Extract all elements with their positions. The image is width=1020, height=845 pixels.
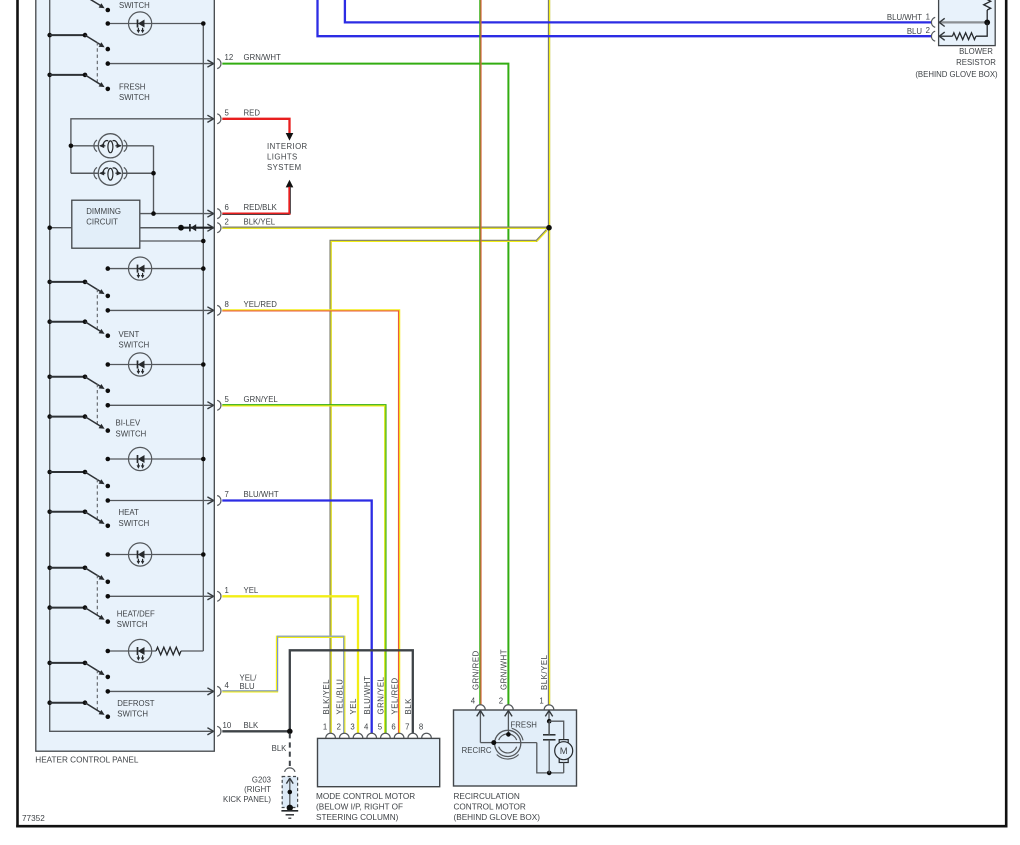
- wire BLK/YEL (junction to mode pin1): [331, 230, 548, 733]
- svg-text:KICK PANEL): KICK PANEL): [223, 795, 271, 804]
- svg-text:SWITCH: SWITCH: [119, 1, 150, 10]
- svg-text:4: 4: [471, 697, 476, 706]
- svg-text:YEL/BLU: YEL/BLU: [336, 679, 345, 715]
- svg-text:RECIRC: RECIRC: [462, 746, 492, 755]
- svg-text:5: 5: [225, 108, 230, 117]
- svg-text:RED/BLK: RED/BLK: [244, 203, 278, 212]
- svg-text:HEAT/DEF: HEAT/DEF: [117, 610, 155, 619]
- switch fresh mechanical link: [96, 42, 98, 82]
- svg-text:4: 4: [364, 723, 369, 732]
- capacitor (motor): [543, 721, 556, 773]
- svg-text:GRN/WHT: GRN/WHT: [244, 53, 281, 62]
- label BLU: [907, 27, 923, 36]
- wire BLU/WHT (pin7 to mode pin4): [222, 501, 371, 734]
- svg-text:RECIRCULATION: RECIRCULATION: [454, 792, 520, 801]
- connector pin 4 (YEL/BLU): [217, 681, 229, 696]
- svg-text:BLK: BLK: [404, 698, 413, 715]
- label vent switch: [119, 330, 150, 350]
- diode (dimming output): [190, 224, 196, 231]
- switch fresh upper: [47, 33, 110, 52]
- svg-text:2: 2: [225, 217, 229, 226]
- wire BLK/YEL vertical (top to recirc pin1): [548, 0, 551, 705]
- wire BLK (pin10 to mode pin7): [222, 650, 412, 733]
- label BLU/WHT: [887, 13, 922, 22]
- svg-text:DEFROST: DEFROST: [117, 699, 154, 708]
- wire recirc pin4 branch: [477, 711, 492, 743]
- svg-text:8: 8: [225, 300, 229, 309]
- svg-text:SWITCH: SWITCH: [119, 93, 150, 102]
- label SWITCH (top): [119, 1, 150, 10]
- ground G203 box: [282, 777, 297, 808]
- label BLOWER RESISTOR: [915, 47, 998, 79]
- svg-text:BLU/WHT: BLU/WHT: [363, 676, 372, 715]
- svg-text:M: M: [560, 746, 568, 757]
- wire BLU (top to blower pin2): [318, 0, 932, 36]
- wire lamp2 row: [71, 171, 156, 176]
- svg-text:(BEHIND GLOVE BOX): (BEHIND GLOVE BOX): [915, 70, 998, 79]
- wire dimming out B: [140, 224, 214, 231]
- resistor (LED dropping): [156, 647, 181, 655]
- illumination lamp 1: [94, 134, 127, 158]
- indicator LED row 4 wire: [106, 457, 206, 462]
- switch defrost lower: [47, 700, 110, 719]
- svg-text:1: 1: [926, 12, 930, 21]
- svg-text:SWITCH: SWITCH: [119, 519, 150, 528]
- wire YEL (pin1 to mode pin3): [222, 596, 358, 733]
- svg-text:DIMMING: DIMMING: [86, 207, 121, 216]
- label heat switch: [119, 508, 150, 528]
- wire RED/BLK (from interior lights to pin6): [222, 180, 293, 215]
- wire blower pin1 internal: [939, 18, 990, 26]
- label MODE CONTROL MOTOR: [316, 792, 415, 822]
- label defrost switch: [117, 699, 154, 719]
- svg-text:7: 7: [405, 723, 409, 732]
- svg-text:5: 5: [225, 395, 230, 404]
- svg-text:BLU/WHT: BLU/WHT: [887, 13, 922, 22]
- svg-text:CONTROL MOTOR: CONTROL MOTOR: [454, 803, 526, 812]
- label FRESH: [511, 720, 537, 729]
- svg-text:BLK: BLK: [244, 721, 260, 730]
- svg-text:G203: G203: [252, 775, 271, 784]
- svg-text:(BELOW I/P, RIGHT OF: (BELOW I/P, RIGHT OF: [316, 803, 403, 812]
- wire rotary wiper: [491, 732, 537, 745]
- connector pin 12 (GRN/WHT): [217, 53, 281, 68]
- connector pin 5 (GRN/YEL): [217, 395, 278, 410]
- wire BLK/YEL (pin2 junction): [222, 227, 549, 230]
- labels recirc motor wire colors: [472, 649, 550, 690]
- wire heat/def output contact: [106, 593, 214, 600]
- svg-text:10: 10: [223, 721, 232, 730]
- svg-text:GRN/YEL: GRN/YEL: [244, 395, 279, 404]
- svg-text:GRN/RED: GRN/RED: [472, 650, 481, 690]
- svg-text:6: 6: [391, 723, 395, 732]
- connector pin 2 (BLK/YEL): [217, 217, 276, 232]
- wire YEL/RED (pin8 to mode pin6): [222, 310, 399, 733]
- wire GRN/YEL (pin5 to mode pin5): [222, 405, 385, 733]
- resistor (blower, horizontal): [939, 22, 987, 40]
- svg-text:SWITCH: SWITCH: [117, 620, 148, 629]
- label heat/def switch: [117, 610, 155, 630]
- svg-text:4: 4: [225, 681, 230, 690]
- junction BLK node: [287, 729, 293, 735]
- switch vent lower: [47, 319, 110, 338]
- switch fresh lower: [47, 73, 110, 92]
- label YEL/BLU (two lines): [240, 674, 258, 691]
- wire BLK dashed to ground: [289, 733, 291, 767]
- junction BLK/YEL node: [546, 225, 552, 231]
- svg-text:GRN/YEL: GRN/YEL: [377, 676, 386, 714]
- mode control motor box: [318, 738, 440, 786]
- svg-text:YEL: YEL: [349, 698, 358, 715]
- svg-text:BLU: BLU: [907, 27, 923, 36]
- svg-text:BLK/YEL: BLK/YEL: [322, 679, 331, 715]
- recirc motor pins 4 2 1: [471, 697, 554, 710]
- wire motor top branch: [549, 721, 564, 739]
- svg-text:SWITCH: SWITCH: [119, 340, 150, 349]
- switch heat/def mechanical link: [96, 575, 98, 615]
- svg-text:SWITCH: SWITCH: [117, 710, 148, 719]
- wire recirc pin2 branch: [505, 711, 512, 734]
- label DIMMING CIRCUIT: [86, 207, 121, 226]
- svg-text:6: 6: [225, 203, 229, 212]
- connector blower pin1: [926, 12, 936, 27]
- wire dimming in D: [47, 225, 71, 230]
- label fresh switch: [119, 83, 150, 103]
- resistor (blower, vertical): [984, 0, 991, 22]
- svg-text:LIGHTS: LIGHTS: [267, 153, 298, 162]
- switch bi-lev lower: [47, 414, 110, 433]
- wire lamp right link: [153, 146, 155, 214]
- svg-text:HEAT: HEAT: [119, 508, 139, 517]
- connector pin 6 (RED/BLK): [217, 203, 277, 218]
- svg-text:BLK/YEL: BLK/YEL: [244, 217, 276, 226]
- wire fresh output contact: [106, 60, 214, 67]
- mode motor pins 1-8: [323, 723, 431, 739]
- indicator LED 4: [129, 447, 152, 470]
- wire vent output contact: [106, 307, 214, 314]
- ground G203 internals: [286, 778, 293, 811]
- connector pin 10 (BLK): [217, 721, 259, 736]
- labels mode motor wire colors: [322, 676, 413, 715]
- connector pin 1 (YEL): [217, 586, 259, 601]
- switch bi-lev mechanical link: [96, 384, 98, 424]
- svg-text:YEL/RED: YEL/RED: [390, 677, 399, 714]
- connector pin 5 (RED): [217, 108, 260, 123]
- svg-text:2: 2: [337, 723, 341, 732]
- label INTERIOR LIGHTS SYSTEM: [267, 142, 308, 172]
- wire right bus: [202, 24, 204, 652]
- wire bi-lev output contact: [106, 402, 214, 409]
- svg-text:1: 1: [323, 723, 327, 732]
- switch (partial, top): [88, 0, 110, 12]
- blower resistor box: [939, 0, 996, 46]
- wire dimming out C: [140, 239, 206, 244]
- indicator LED 1: [129, 12, 152, 35]
- indicator LED 3: [129, 353, 152, 376]
- connector pin 7 (BLU/WHT): [217, 490, 279, 505]
- wire GRN/RED (top to recirc pin4): [479, 0, 482, 705]
- indicator LED 5: [129, 543, 152, 566]
- svg-text:2: 2: [499, 697, 503, 706]
- svg-text:FRESH: FRESH: [119, 83, 145, 92]
- svg-text:12: 12: [225, 53, 234, 62]
- indicator LED row 3 wire: [106, 362, 206, 367]
- label BLK (ground wire): [272, 744, 288, 753]
- svg-text:MODE CONTROL MOTOR: MODE CONTROL MOTOR: [316, 792, 415, 801]
- indicator LED 6: [129, 639, 152, 662]
- switch heat mechanical link: [96, 479, 98, 519]
- svg-text:8: 8: [419, 723, 423, 732]
- switch defrost mechanical link: [96, 670, 98, 710]
- svg-text:7: 7: [225, 490, 229, 499]
- label G203 (RIGHT KICK PANEL): [223, 775, 271, 804]
- indicator LED 2: [129, 257, 152, 280]
- switch vent mechanical link: [96, 289, 98, 329]
- indicator LED row 6 wire: [106, 649, 204, 654]
- svg-text:FRESH: FRESH: [511, 720, 537, 729]
- svg-text:2: 2: [926, 26, 930, 35]
- svg-text:YEL/RED: YEL/RED: [244, 300, 278, 309]
- svg-text:BLK: BLK: [272, 744, 288, 753]
- switch bi-lev upper: [47, 375, 110, 394]
- connector blower pin2: [926, 26, 936, 41]
- svg-text:GRN/WHT: GRN/WHT: [500, 649, 509, 690]
- diagram number 77352: [22, 814, 45, 823]
- wire BLU/WHT (top to blower pin1): [345, 0, 932, 22]
- svg-text:BLU/WHT: BLU/WHT: [244, 490, 279, 499]
- svg-text:BI-LEV: BI-LEV: [116, 419, 141, 428]
- indicator LED row 5 wire: [106, 552, 206, 557]
- svg-text:(BEHIND GLOVE BOX): (BEHIND GLOVE BOX): [454, 813, 541, 822]
- svg-text:77352: 77352: [22, 814, 45, 823]
- svg-text:VENT: VENT: [119, 330, 140, 339]
- switch heat upper: [47, 470, 110, 489]
- switch heat lower: [47, 510, 110, 529]
- svg-text:BLOWER: BLOWER: [959, 47, 993, 56]
- wire rotary to bottom: [537, 743, 564, 776]
- svg-text:SWITCH: SWITCH: [116, 429, 147, 438]
- switch heat/def lower: [47, 605, 110, 624]
- wire lamp loop: [71, 115, 214, 173]
- wire recirc pin1 branch: [545, 711, 552, 734]
- dimming circuit box: [72, 200, 140, 248]
- svg-text:(RIGHT: (RIGHT: [244, 785, 271, 794]
- wire GRN/WHT (pin12 to recirc pin2): [222, 64, 508, 705]
- svg-text:SYSTEM: SYSTEM: [267, 163, 302, 172]
- wire defrost output contact: [106, 688, 214, 695]
- wire YEL/BLU (pin4 to mode pin2): [222, 636, 344, 733]
- ground symbol: [281, 811, 298, 818]
- svg-text:BLK/YEL: BLK/YEL: [540, 654, 549, 690]
- svg-text:RED: RED: [244, 108, 261, 117]
- svg-text:BLU: BLU: [240, 682, 256, 691]
- svg-text:3: 3: [350, 723, 354, 732]
- svg-text:1: 1: [539, 697, 543, 706]
- indicator LED row 1 wire: [106, 21, 206, 26]
- switch vent upper: [47, 280, 110, 299]
- svg-text:1: 1: [225, 586, 229, 595]
- rotary mode switch (recirc/fresh): [495, 728, 523, 759]
- svg-text:INTERIOR: INTERIOR: [267, 142, 308, 151]
- recirculation control motor box: [454, 710, 577, 786]
- motor M (recirculation): [555, 740, 573, 773]
- wire lamp1 row: [69, 144, 154, 149]
- wire left bus: [50, 0, 214, 735]
- illumination lamp 2: [94, 161, 127, 185]
- indicator LED row 2 wire: [106, 266, 206, 271]
- connector ground arc: [285, 768, 295, 772]
- svg-text:5: 5: [378, 723, 383, 732]
- label bi-lev switch: [116, 419, 147, 439]
- connector pin 8 (YEL/RED): [217, 300, 277, 315]
- svg-text:STEERING COLUMN): STEERING COLUMN): [316, 813, 399, 822]
- switch defrost upper: [47, 661, 110, 680]
- wire RED (pin5 to interior lights): [222, 119, 293, 141]
- label RECIRC: [462, 746, 492, 755]
- svg-text:RESISTOR: RESISTOR: [956, 58, 996, 67]
- svg-text:HEATER CONTROL PANEL: HEATER CONTROL PANEL: [35, 756, 139, 765]
- wire dimming out A: [140, 210, 214, 217]
- switch heat/def upper: [47, 566, 110, 585]
- heater control panel box: [36, 0, 215, 751]
- label RECIRCULATION CONTROL MOTOR: [454, 792, 541, 822]
- wire heat output contact: [106, 497, 214, 504]
- svg-text:CIRCUIT: CIRCUIT: [86, 217, 118, 226]
- label HEATER CONTROL PANEL: [35, 756, 139, 765]
- svg-text:YEL: YEL: [244, 586, 259, 595]
